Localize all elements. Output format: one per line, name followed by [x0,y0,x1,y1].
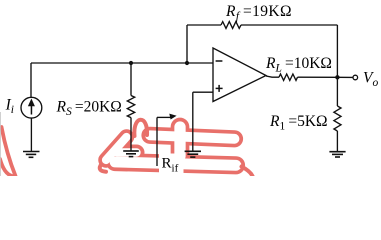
wire: op-amp output to R_L [266,76,279,77]
terminal Vo open circle [353,75,358,80]
wire: feedback right vertical down to output node [336,25,338,77]
wire: R_L to output node [298,76,338,78]
wire: left vertical to current source [30,63,32,97]
wire: feedback left vertical [186,25,188,63]
wire: main input horizontal [31,62,213,64]
watermark red scrawl (bubble outline pass 1: red) [106,127,236,165]
resistor R_f zigzag (horizontal) [221,22,241,29]
wire: R1 to ground [336,131,338,152]
main black circuit [21,22,358,166]
node junction at R_S tap [129,61,133,65]
resistor R1 zigzag (vertical) [334,106,341,131]
wire: below current source [30,118,32,151]
current source I1 circle [21,97,42,118]
R_if arrowhead [169,114,176,120]
ground at plus input [185,151,201,157]
ground below R_S [123,151,139,157]
svg-text:Rf =19KΩ: Rf =19KΩ [225,3,292,23]
svg-text:R1 =5KΩ: R1 =5KΩ [269,113,328,133]
svg-text:RS =20KΩ: RS =20KΩ [56,99,122,119]
current source arrow [28,99,35,115]
node output junction [335,75,339,79]
ground below R1 [329,152,345,157]
R_if measurement arrow [156,117,158,166]
watermark corner arc 2 [0,159,12,176]
watermark bottom right hook [242,167,253,177]
watermark arm-to-band connector [100,166,106,172]
watermark corner arc 1 [2,127,16,176]
wire: feedback top left segment [187,24,221,26]
resistor R_L zigzag (horizontal) [279,74,298,80]
wire: output node to terminal [337,76,353,78]
wire: plus input vertical down [192,92,194,151]
wire: down to R_S [130,63,132,96]
watermark hook loop [134,120,147,136]
ground below current source [23,152,40,158]
op-amp plus sign [216,85,223,92]
wire: plus input horizontal [193,91,213,93]
node junction feedback tap [185,61,189,65]
white backing behind R_if label [159,154,184,174]
watermark white interior pass [106,127,236,165]
left faint border [0,112,1,176]
wire: R_S to ground [130,118,132,151]
op-amp U1 triangle [213,48,266,102]
wire: output node down to R_1 [336,77,338,106]
svg-text:RL =10KΩ: RL =10KΩ [265,55,332,75]
resistor R_S zigzag (vertical) [127,96,134,118]
op-amp minus sign [216,60,223,62]
wire: feedback top right segment [241,24,337,26]
